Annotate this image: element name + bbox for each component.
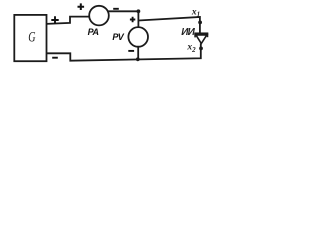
ammeter PA circle [89, 6, 109, 26]
wire PA to PV junction [108, 10, 139, 12]
diode bar right tick [207, 34, 209, 38]
wire PV branch vertical [137, 11, 139, 27]
diode bar left tick [194, 34, 196, 38]
plus sign PV terminal [130, 17, 135, 23]
wire PV bottom to bus [137, 47, 139, 60]
wire junction to X1 corner [138, 17, 200, 33]
minus sign PV terminal [128, 50, 134, 52]
svg-text:x2: x2 [186, 43, 196, 54]
source box G [14, 15, 46, 61]
svg-text:ИИ: ИИ [181, 27, 195, 38]
minus sign PA terminal [113, 8, 119, 10]
node junction top [137, 9, 141, 13]
wire diode to bottom bus and return to G [47, 44, 201, 61]
diode cathode bar [194, 32, 208, 34]
svg-text:G: G [28, 29, 35, 45]
voltmeter PV circle [128, 27, 148, 47]
svg-text:x1: x1 [191, 7, 200, 18]
node junction bottom [136, 57, 140, 61]
svg-text:PA: PA [88, 27, 99, 37]
minus sign source terminal [52, 57, 58, 59]
node X1 terminal dot [198, 21, 202, 25]
plus sign source terminal [51, 16, 58, 23]
diode triangle [196, 35, 207, 44]
plus sign PA terminal [78, 3, 85, 10]
svg-text:PV: PV [112, 32, 124, 42]
wire top feed from G to PA [47, 17, 90, 24]
node X2 terminal dot [199, 47, 203, 51]
